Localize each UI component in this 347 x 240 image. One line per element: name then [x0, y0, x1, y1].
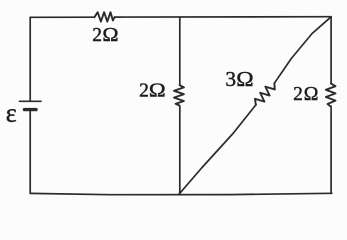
wire left lower: [29, 111, 31, 193]
resistor R4 2-ohm right: [326, 84, 336, 107]
resistor R2 2-ohm middle: [174, 85, 184, 105]
wire bottom: [30, 193, 332, 194]
battery positive plate (long): [20, 100, 42, 102]
wire right lower: [330, 107, 332, 194]
wire middle lower: [179, 106, 181, 195]
svg-text:2Ω: 2Ω: [139, 81, 166, 102]
wire diagonal lower segment: [179, 105, 256, 195]
wire top-left segment: [30, 16, 94, 18]
svg-text:ε: ε: [6, 99, 17, 128]
wire left upper: [29, 17, 31, 100]
battery negative plate (short thick): [25, 108, 37, 111]
svg-text:3Ω: 3Ω: [225, 67, 253, 91]
svg-text:2Ω: 2Ω: [293, 84, 318, 105]
wire right upper: [330, 17, 332, 84]
wire diagonal upper segment: [274, 17, 331, 84]
wire middle upper: [179, 17, 181, 85]
wire top-right segment: [115, 16, 332, 18]
resistor R1 2-ohm top: [94, 12, 114, 21]
resistor R3 3-ohm diagonal: [252, 80, 277, 107]
svg-text:2Ω: 2Ω: [92, 25, 118, 46]
